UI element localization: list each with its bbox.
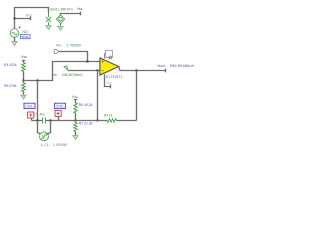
wire top rail from source to X probe — [15, 8, 49, 29]
svg-text:Vout: Vout — [157, 64, 164, 68]
wire -input — [68, 70, 100, 72]
pin arrow on -input wire — [64, 66, 68, 70]
svg-text:R7 21.3k: R7 21.3k — [79, 122, 93, 126]
ground below X1 — [46, 26, 51, 30]
voltage source VG1 — [10, 29, 19, 38]
junction dots on bottom rail — [36, 119, 38, 121]
current probe X1 — [48, 13, 50, 17]
svg-text:R3 1k: R3 1k — [104, 113, 113, 117]
instrument label box CHB — [55, 103, 66, 108]
svg-text:Vcc: Vcc — [72, 95, 78, 99]
wire diamond to ground — [60, 23, 62, 26]
probe terminal box + (right) — [55, 110, 61, 116]
ground below diamond — [58, 26, 63, 30]
svg-text:Vss: Vss — [107, 81, 113, 85]
value label box of VG1 — [21, 35, 31, 39]
resistor R6 40.2k — [74, 103, 77, 113]
svg-text:CHA: CHA — [25, 105, 33, 109]
wire R5 to ground — [23, 92, 25, 96]
wire op-amp output — [119, 67, 166, 73]
wire source to ground — [14, 37, 16, 41]
node Vcc stub — [15, 17, 31, 21]
svg-text:SINE: SINE — [22, 35, 29, 39]
probe terminal box + (left) — [28, 112, 34, 118]
svg-text:R4 432k: R4 432k — [4, 63, 17, 67]
resistor R3 1k (feedback, horizontal) — [107, 119, 117, 122]
svg-text:R5 470k: R5 470k — [4, 84, 17, 88]
wire Vin port to +input — [59, 52, 88, 62]
controlled source (diamond) — [56, 15, 64, 24]
svg-text:C1 40u: C1 40u — [35, 112, 46, 116]
svg-text:Vss: Vss — [21, 55, 27, 59]
voltmeter VM1 across C1 — [38, 121, 51, 135]
svg-text:VG1: VG1 — [22, 30, 29, 34]
svg-text:290.90466uV: 290.90466uV — [170, 64, 195, 68]
svg-text:Vin: Vin — [53, 73, 58, 77]
ground below R7 — [73, 136, 78, 140]
capacitor C1 — [43, 117, 46, 123]
svg-text:1.79539V: 1.79539V — [67, 43, 82, 47]
svg-text:Vin:: Vin: — [56, 43, 62, 47]
resistor R7 21.3k — [75, 121, 77, 123]
svg-text:I(Vs1): 990.57n: I(Vs1): 990.57n — [50, 8, 73, 12]
op-amp U1 — [100, 58, 119, 75]
junction to bottom instruments — [36, 79, 38, 81]
ground below VG1 — [12, 42, 17, 46]
svg-text:V_C1:: V_C1: — [41, 143, 50, 147]
ground below R5 — [21, 95, 26, 99]
svg-text:R6 40.2k: R6 40.2k — [79, 103, 93, 107]
svg-text:CHB: CHB — [56, 105, 64, 109]
svg-text:1.47049V: 1.47049V — [53, 143, 68, 147]
bottom rail — [32, 120, 137, 122]
op-amp V- pin to Vss terminal — [105, 74, 111, 88]
wire R4 to node — [23, 71, 25, 80]
resistor R5 470k — [23, 81, 25, 84]
wire divider mid-rail to op-amp +input — [24, 62, 101, 81]
svg-text:248.36246mV: 248.36246mV — [62, 73, 83, 77]
wire vertical drop to bottom rail — [37, 81, 39, 121]
svg-text:Vcc: Vcc — [26, 13, 32, 17]
feedback wire from -input down — [97, 71, 99, 121]
feedback wire from output down — [136, 71, 138, 121]
svg-text:Vss: Vss — [77, 7, 83, 11]
op-amp V+ pin and supply box — [105, 54, 110, 59]
wire diamond to Vss terminal — [61, 12, 81, 16]
instrument label box CHA — [24, 103, 35, 108]
resistor R4 432k — [22, 63, 25, 72]
svg-text:U1 TLV171: U1 TLV171 — [106, 75, 123, 79]
port Vin arrow — [54, 50, 58, 54]
